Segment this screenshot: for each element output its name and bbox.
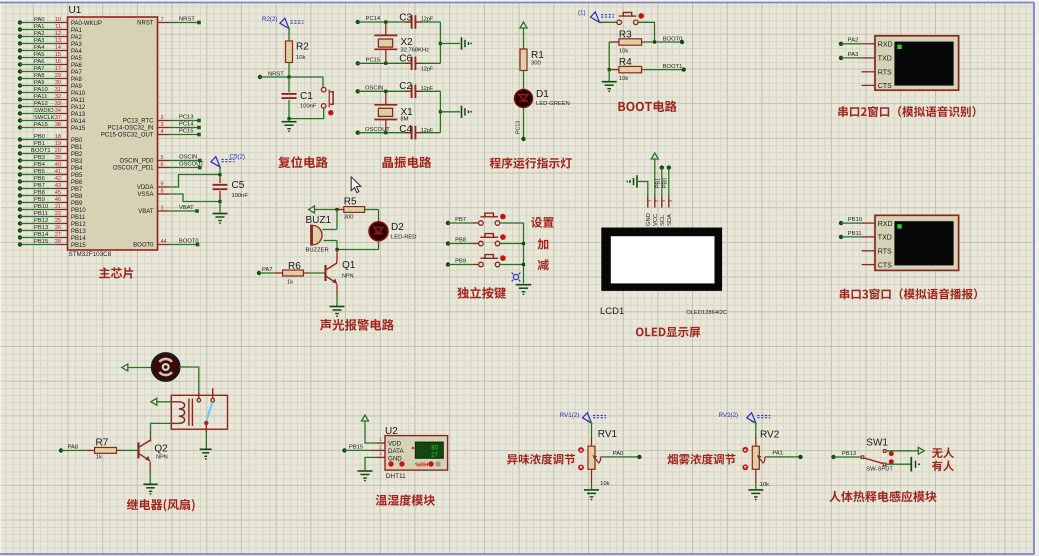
svg-text:VDD: VDD bbox=[388, 441, 402, 448]
svg-text:8M: 8M bbox=[400, 117, 408, 123]
svg-text:Q2: Q2 bbox=[154, 444, 168, 455]
svg-text:38: 38 bbox=[55, 122, 61, 128]
svg-text:PA4: PA4 bbox=[71, 49, 83, 55]
wire RV2 wiper to PA1 bbox=[765, 456, 801, 458]
svg-text:PC14: PC14 bbox=[179, 122, 194, 128]
node PB0 SDA bbox=[662, 165, 671, 196]
svg-text:RXD: RXD bbox=[878, 221, 893, 228]
svg-text:PA7: PA7 bbox=[71, 70, 83, 76]
svg-text:X2: X2 bbox=[401, 37, 414, 48]
svg-text:PB5: PB5 bbox=[71, 173, 83, 179]
svg-text:10k: 10k bbox=[296, 55, 305, 61]
wire PB7 to bus bbox=[500, 222, 524, 224]
svg-text:VBAT: VBAT bbox=[138, 209, 154, 215]
svg-text:RXD: RXD bbox=[878, 42, 893, 49]
ground OLED bbox=[627, 175, 638, 187]
svg-text:28: 28 bbox=[55, 239, 61, 245]
svg-text:PA1: PA1 bbox=[71, 28, 83, 34]
ground BOOT bbox=[602, 82, 617, 93]
LCD1 OLED12864I2C display bbox=[600, 228, 727, 318]
node PB7 bbox=[446, 217, 479, 225]
wire buzzer bottom bbox=[336, 241, 338, 250]
svg-text:44: 44 bbox=[161, 239, 167, 245]
svg-text:PC13: PC13 bbox=[179, 115, 194, 121]
wire bottom rail bbox=[335, 248, 378, 251]
svg-text:PB13: PB13 bbox=[71, 229, 86, 235]
svg-text:PA3: PA3 bbox=[848, 52, 859, 58]
svg-text:NPN: NPN bbox=[156, 455, 168, 461]
svg-text:SW1: SW1 bbox=[866, 438, 888, 449]
svg-text:SCL: SCL bbox=[660, 214, 666, 226]
svg-text:PC14-OSC32_IN: PC14-OSC32_IN bbox=[107, 126, 153, 132]
OLED pin SDA bbox=[667, 197, 673, 227]
wire coil to Q2 bbox=[151, 423, 172, 437]
svg-text:PA5: PA5 bbox=[34, 52, 45, 58]
capacitor C2 12pF bbox=[399, 81, 440, 98]
svg-text:19: 19 bbox=[55, 141, 61, 147]
svg-text:6: 6 bbox=[161, 162, 164, 168]
OLED pin SCL bbox=[660, 197, 666, 227]
svg-text:PA12: PA12 bbox=[71, 105, 86, 111]
svg-text:9: 9 bbox=[161, 181, 164, 187]
potentiometer RV1 10k bbox=[578, 429, 617, 487]
svg-text:PA0-WKUP: PA0-WKUP bbox=[71, 21, 102, 27]
svg-text:46: 46 bbox=[55, 197, 61, 203]
svg-text:C1: C1 bbox=[300, 91, 313, 102]
svg-text:5: 5 bbox=[161, 155, 164, 161]
svg-text:PB8: PB8 bbox=[34, 190, 45, 196]
pin PC15 (4) wire bbox=[101, 129, 201, 139]
svg-text:PB8: PB8 bbox=[71, 194, 83, 200]
node PA2 bbox=[839, 38, 862, 46]
svg-text:27: 27 bbox=[431, 453, 438, 459]
svg-text:BOOT1: BOOT1 bbox=[31, 148, 51, 154]
svg-text:NPN: NPN bbox=[342, 274, 354, 280]
svg-text:45: 45 bbox=[55, 190, 61, 196]
label serial3 title bbox=[840, 288, 977, 299]
svg-text:PB15: PB15 bbox=[34, 239, 48, 245]
svg-text:LCD1: LCD1 bbox=[600, 306, 624, 317]
svg-text:27: 27 bbox=[55, 232, 61, 238]
resistor R5 300 bbox=[337, 196, 379, 220]
svg-text:PB0: PB0 bbox=[71, 138, 83, 144]
svg-text:(1): (1) bbox=[578, 10, 586, 17]
svg-text:PB9: PB9 bbox=[71, 201, 83, 207]
svg-text:PB6: PB6 bbox=[71, 180, 83, 186]
ground reset bbox=[282, 122, 297, 133]
svg-text:SWDIO: SWDIO bbox=[34, 108, 54, 114]
pin PA2 (12) wire bbox=[18, 31, 83, 41]
wire R1 to D1 bbox=[523, 71, 525, 90]
pin PC13 (2) wire bbox=[123, 115, 201, 125]
svg-text:12: 12 bbox=[55, 31, 61, 37]
pin PA15 (38) wire bbox=[18, 122, 86, 132]
push button reset bbox=[289, 77, 333, 119]
svg-text:GND: GND bbox=[388, 455, 402, 462]
wire PB8 to bus bbox=[500, 243, 524, 245]
svg-text:R2: R2 bbox=[296, 42, 309, 53]
svg-text:STM32F103C8: STM32F103C8 bbox=[69, 251, 112, 258]
pin PA11 (32) wire bbox=[18, 94, 86, 104]
wire SW1 NO bbox=[886, 450, 916, 452]
marker origin bbox=[512, 273, 521, 282]
svg-text:R4: R4 bbox=[619, 57, 632, 68]
resistor R7 1k bbox=[87, 438, 138, 461]
label somebody bbox=[932, 460, 954, 471]
svg-text:SDA: SDA bbox=[667, 214, 673, 226]
svg-text:PB15: PB15 bbox=[71, 243, 86, 249]
transistor Q1 NPN bbox=[326, 250, 356, 284]
power flag C5(2) bbox=[211, 153, 245, 167]
node BOOT1 bbox=[663, 64, 686, 72]
wire Q1 emitter to ground bbox=[336, 284, 338, 306]
LED D2 LED-RED bbox=[369, 222, 416, 241]
pin PA10 (31) wire bbox=[18, 87, 86, 97]
svg-text:DHT11: DHT11 bbox=[386, 473, 406, 480]
svg-text:PA0: PA0 bbox=[34, 17, 45, 23]
wire flag to button bbox=[600, 21, 618, 23]
pin PB15 (28) wire bbox=[18, 239, 87, 249]
svg-text:PB10: PB10 bbox=[34, 204, 48, 210]
svg-text:R6: R6 bbox=[288, 261, 301, 272]
svg-text:2: 2 bbox=[379, 444, 382, 449]
pin BOOT0 (44) wire bbox=[133, 239, 199, 249]
svg-text:1k: 1k bbox=[287, 280, 293, 286]
pin PA8 (29) wire bbox=[18, 73, 83, 83]
power flag D1 bbox=[520, 22, 527, 30]
svg-text:PA3: PA3 bbox=[71, 42, 83, 48]
pin PB12 (25) wire bbox=[18, 218, 87, 228]
push button PB8 bbox=[479, 234, 506, 246]
svg-text:43: 43 bbox=[55, 183, 61, 189]
pin VSSA (8) wire bbox=[137, 188, 220, 201]
pin PC14 (3) wire bbox=[107, 122, 200, 132]
wire crystal1 right rail bbox=[439, 22, 460, 63]
svg-text:BOOT0: BOOT0 bbox=[663, 36, 683, 42]
label PIR title bbox=[829, 491, 936, 503]
svg-text:PB11: PB11 bbox=[34, 211, 48, 217]
capacitor C6 12pF bbox=[399, 54, 440, 73]
svg-text:10k: 10k bbox=[619, 76, 628, 82]
svg-text:PA8: PA8 bbox=[34, 73, 45, 79]
wire flag to RV2 bbox=[751, 421, 756, 446]
label serial2 title bbox=[838, 106, 975, 117]
svg-text:PA8: PA8 bbox=[68, 445, 79, 451]
push button BOOT bbox=[617, 12, 644, 24]
svg-text:RTS: RTS bbox=[878, 249, 892, 256]
svg-text:PB7: PB7 bbox=[71, 187, 83, 193]
wire OLED VCC bbox=[654, 161, 656, 196]
ground RV1 bbox=[584, 490, 599, 501]
svg-text:1: 1 bbox=[161, 205, 164, 211]
svg-text:C5(2): C5(2) bbox=[230, 153, 245, 160]
svg-text:10k: 10k bbox=[760, 482, 769, 488]
power flag (1) bbox=[578, 10, 614, 23]
wire D2 to rail bbox=[378, 241, 380, 250]
svg-text:PB13: PB13 bbox=[842, 451, 856, 457]
power flag RV1(2) bbox=[560, 412, 606, 423]
pin VDDA (9) wire bbox=[137, 175, 220, 192]
power flag SW1 bbox=[916, 447, 924, 454]
ground Q2 bbox=[143, 484, 157, 495]
svg-text:13: 13 bbox=[55, 38, 61, 44]
node PB10 bbox=[839, 217, 862, 225]
label button 2 bbox=[538, 239, 549, 250]
svg-text:30: 30 bbox=[55, 80, 61, 86]
pin PB8 (45) wire bbox=[18, 190, 83, 200]
svg-text:PA2: PA2 bbox=[71, 35, 83, 41]
wire R3 R4 left bbox=[608, 42, 611, 71]
node PA8 bbox=[59, 445, 87, 453]
wire buzzer top bbox=[336, 210, 338, 230]
buzzer BUZ1 bbox=[306, 215, 338, 254]
svg-text:PB4: PB4 bbox=[71, 166, 83, 172]
svg-text:C2: C2 bbox=[399, 81, 412, 92]
svg-text:PC14: PC14 bbox=[366, 16, 381, 22]
svg-text:10k: 10k bbox=[619, 49, 628, 55]
svg-text:CTS: CTS bbox=[878, 262, 892, 269]
svg-text:LED-RED: LED-RED bbox=[391, 235, 416, 241]
svg-text:VDDA: VDDA bbox=[137, 185, 154, 191]
capacitor C3 12pF bbox=[399, 12, 440, 28]
svg-text:OSCIN: OSCIN bbox=[179, 155, 197, 161]
ground RV2 bbox=[748, 490, 763, 501]
svg-text:BOOT1: BOOT1 bbox=[663, 64, 683, 70]
label button 3 bbox=[538, 259, 549, 270]
capacitor C4 12pF bbox=[399, 124, 440, 139]
svg-text:R5: R5 bbox=[344, 196, 357, 207]
wire C5 bottom bbox=[219, 202, 221, 213]
label BOOT title bbox=[618, 101, 676, 113]
pin PB9 (46) wire bbox=[18, 197, 83, 207]
label OLED title bbox=[636, 327, 700, 337]
cursor bbox=[351, 177, 361, 193]
svg-text:DATA: DATA bbox=[388, 448, 404, 455]
svg-text:11: 11 bbox=[55, 24, 61, 30]
svg-text:BUZZER: BUZZER bbox=[306, 248, 329, 254]
svg-text:PA3: PA3 bbox=[34, 38, 45, 44]
svg-text:C5: C5 bbox=[232, 180, 245, 191]
svg-text:20: 20 bbox=[55, 148, 61, 154]
crystal X1 8M bbox=[374, 93, 413, 133]
svg-text:32.768KHz: 32.768KHz bbox=[400, 47, 429, 53]
wire R2 top bbox=[288, 28, 290, 42]
push button PB7 bbox=[479, 213, 506, 225]
power flag R2(2) bbox=[262, 16, 304, 29]
svg-text:7: 7 bbox=[161, 17, 164, 23]
wire D1 to PC13 bbox=[516, 108, 526, 142]
node BOOT0 bbox=[663, 36, 685, 44]
label button 1 bbox=[531, 217, 554, 228]
resistor R1 300 bbox=[520, 49, 544, 71]
svg-text:PB14: PB14 bbox=[71, 236, 86, 242]
svg-text:100nF: 100nF bbox=[300, 104, 317, 110]
svg-text:10k: 10k bbox=[600, 481, 609, 487]
label DHT11 title bbox=[376, 494, 435, 505]
node PB13 bbox=[831, 451, 861, 459]
svg-text:42: 42 bbox=[55, 176, 61, 182]
svg-text:RV2: RV2 bbox=[760, 430, 780, 441]
svg-text:TXD: TXD bbox=[878, 235, 892, 242]
power flag relay coil bbox=[151, 398, 159, 405]
svg-text:26: 26 bbox=[55, 225, 61, 231]
svg-text:PA10: PA10 bbox=[34, 87, 48, 93]
wire arrow to coil bbox=[159, 401, 171, 403]
node OSCIN bbox=[356, 85, 410, 93]
label smoke title bbox=[667, 454, 735, 465]
wire crystal2 right rail bbox=[439, 91, 460, 132]
IC U1 STM32F103C8 body bbox=[68, 5, 158, 258]
resistor R4 10k bbox=[609, 57, 684, 82]
node PB15 bbox=[342, 444, 377, 452]
svg-text:PA10: PA10 bbox=[71, 91, 86, 97]
virtual terminal serial2 bbox=[862, 36, 959, 90]
svg-text:PB11: PB11 bbox=[848, 231, 862, 237]
svg-text:31: 31 bbox=[55, 87, 61, 93]
svg-text:PA6: PA6 bbox=[71, 63, 83, 69]
svg-text:39: 39 bbox=[55, 155, 61, 161]
ground buttons bbox=[516, 285, 532, 295]
node PA3 bbox=[839, 52, 862, 60]
node PB1 SCL bbox=[655, 165, 664, 196]
wire R5 to D2 bbox=[378, 210, 380, 222]
svg-text:PA5: PA5 bbox=[71, 56, 83, 62]
svg-text:PA9: PA9 bbox=[71, 84, 83, 90]
label run LED title bbox=[490, 157, 572, 168]
potentiometer RV2 10k bbox=[742, 430, 779, 489]
svg-text:PA1: PA1 bbox=[772, 451, 783, 457]
svg-text:PB11: PB11 bbox=[71, 215, 86, 221]
wire relay to ground bbox=[205, 432, 207, 449]
svg-text:PA0: PA0 bbox=[613, 451, 624, 457]
pin OSCIN (5) wire bbox=[119, 155, 201, 165]
wire GND to ground bbox=[365, 457, 377, 470]
relay RL1 bbox=[171, 388, 227, 432]
svg-text:18: 18 bbox=[55, 134, 61, 140]
svg-text:C3: C3 bbox=[399, 12, 412, 23]
svg-text:PC15: PC15 bbox=[179, 129, 194, 135]
svg-text:C6: C6 bbox=[399, 54, 412, 65]
svg-text:PA12: PA12 bbox=[34, 101, 48, 107]
wire arrow to motor bbox=[130, 367, 152, 369]
svg-text:PA2: PA2 bbox=[34, 31, 45, 37]
junction reset gnd bbox=[287, 117, 290, 120]
pin PA7 (17) wire bbox=[18, 66, 83, 76]
svg-text:PA4: PA4 bbox=[34, 45, 45, 51]
pin PA12 (33) wire bbox=[18, 101, 86, 111]
svg-text:PB7: PB7 bbox=[34, 183, 45, 189]
svg-text:PA15: PA15 bbox=[34, 122, 48, 128]
svg-text:GND: GND bbox=[646, 213, 652, 226]
node PA0 bbox=[613, 451, 642, 459]
wire OLED GND bbox=[637, 182, 648, 197]
svg-text:PA11: PA11 bbox=[71, 98, 85, 104]
pin PA4 (14) wire bbox=[18, 45, 83, 55]
svg-text:NRST: NRST bbox=[179, 17, 195, 23]
svg-text:NRST: NRST bbox=[137, 21, 154, 27]
svg-text:NRST: NRST bbox=[268, 71, 284, 77]
svg-text:R3: R3 bbox=[619, 30, 632, 41]
svg-text:29: 29 bbox=[55, 73, 61, 79]
wire C5 top bbox=[219, 167, 221, 175]
pin PB7 (43) wire bbox=[18, 183, 83, 193]
OLED pin VCC bbox=[653, 197, 659, 227]
power flag alarm bbox=[309, 206, 317, 213]
svg-text:80: 80 bbox=[431, 445, 438, 451]
wire SW1 NC bbox=[886, 463, 910, 465]
svg-text:12pF: 12pF bbox=[421, 67, 434, 73]
svg-text:PB7: PB7 bbox=[455, 217, 466, 223]
label odor title bbox=[507, 454, 575, 465]
pin PA0 (10) wire bbox=[18, 17, 102, 27]
svg-text:PB12: PB12 bbox=[34, 218, 48, 224]
svg-text:PC13: PC13 bbox=[516, 121, 522, 134]
svg-text:PC15: PC15 bbox=[366, 58, 381, 64]
node OSCOUT bbox=[356, 127, 410, 135]
svg-text:PB10: PB10 bbox=[71, 208, 86, 214]
svg-text:4: 4 bbox=[161, 129, 164, 135]
svg-text:1k: 1k bbox=[96, 455, 102, 461]
ground crystal2 bbox=[462, 106, 473, 118]
pin OSCOUT (6) wire bbox=[113, 162, 204, 172]
svg-text:17: 17 bbox=[55, 66, 61, 72]
svg-text:D2: D2 bbox=[391, 222, 404, 233]
switch SW1 SW-SPDT bbox=[861, 438, 894, 473]
wire motor to relay bbox=[180, 367, 199, 393]
svg-text:OSCIN_PD0: OSCIN_PD0 bbox=[119, 159, 154, 165]
svg-text:D1: D1 bbox=[536, 89, 549, 100]
ground relay bbox=[200, 449, 212, 460]
power flag RV2(2) bbox=[719, 412, 771, 423]
svg-text:PA6: PA6 bbox=[34, 59, 45, 65]
svg-text:PB10: PB10 bbox=[848, 217, 862, 223]
label nobody bbox=[932, 448, 954, 459]
svg-text:PA13: PA13 bbox=[71, 112, 86, 118]
power flag OLED VCC bbox=[651, 153, 658, 161]
OLED pin GND bbox=[646, 197, 652, 227]
svg-text:PA9: PA9 bbox=[34, 80, 45, 86]
svg-text:PB3: PB3 bbox=[71, 159, 83, 165]
label main chip title bbox=[99, 267, 133, 278]
svg-text:BUZ1: BUZ1 bbox=[306, 215, 332, 226]
svg-text:33: 33 bbox=[55, 101, 61, 107]
svg-text:OSCIN: OSCIN bbox=[365, 85, 383, 91]
svg-text:PA7: PA7 bbox=[262, 267, 273, 273]
svg-text:VBAT: VBAT bbox=[179, 205, 194, 211]
resistor R6 1k bbox=[283, 261, 325, 286]
svg-text:40: 40 bbox=[55, 162, 61, 168]
node PC15 bbox=[356, 58, 410, 66]
svg-text:PA7: PA7 bbox=[34, 66, 45, 72]
svg-text:U1: U1 bbox=[69, 5, 82, 16]
svg-text:PC15-OSC32_OUT: PC15-OSC32_OUT bbox=[101, 133, 154, 139]
svg-text:PB2: PB2 bbox=[71, 152, 83, 158]
crystal X2 32.768KHz bbox=[374, 24, 429, 64]
pin SWCLK (37) wire bbox=[18, 115, 86, 125]
svg-text:VCC: VCC bbox=[653, 214, 659, 226]
pin PB14 (27) wire bbox=[18, 232, 87, 242]
wire button bus bbox=[522, 223, 525, 284]
svg-text:21: 21 bbox=[55, 204, 61, 210]
pin PA5 (15) wire bbox=[18, 52, 83, 62]
svg-text:4: 4 bbox=[379, 451, 382, 456]
pin PB5 (41) wire bbox=[18, 169, 83, 179]
svg-text:SW-SPDT: SW-SPDT bbox=[866, 467, 893, 473]
pin PB0 (18) wire bbox=[18, 134, 83, 144]
wire button to BOOT0 bbox=[638, 22, 655, 42]
svg-text:Q1: Q1 bbox=[342, 260, 356, 271]
wire arrow to R5 bbox=[317, 208, 339, 211]
